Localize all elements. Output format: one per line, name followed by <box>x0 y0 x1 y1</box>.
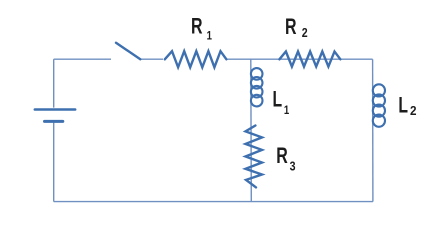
svg-text:2: 2 <box>410 103 417 118</box>
svg-text:2: 2 <box>302 26 308 40</box>
svg-text:L: L <box>398 93 408 118</box>
svg-text:R: R <box>285 14 297 39</box>
svg-text:R: R <box>191 14 203 39</box>
svg-text:1: 1 <box>284 104 289 117</box>
svg-text:L: L <box>272 87 282 112</box>
svg-text:3: 3 <box>290 160 296 174</box>
svg-text:1: 1 <box>207 30 212 43</box>
svg-text:R: R <box>276 143 288 168</box>
